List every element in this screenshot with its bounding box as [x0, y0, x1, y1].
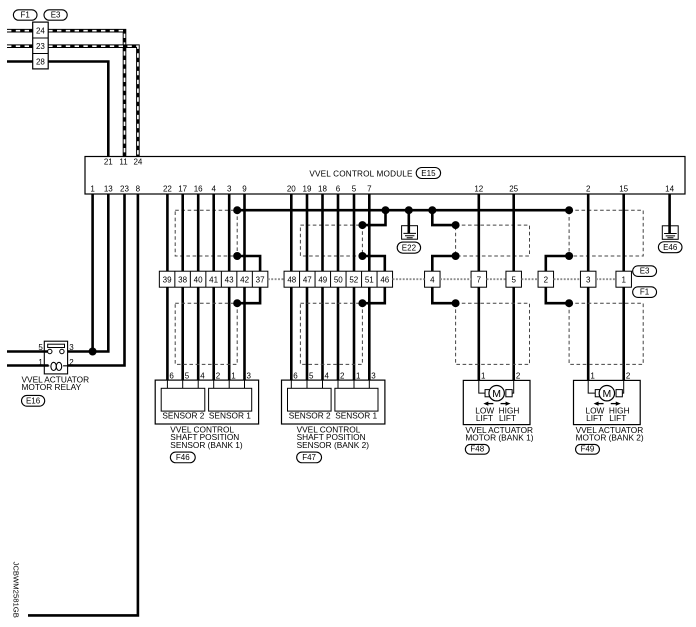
svg-text:F49: F49: [581, 445, 595, 454]
svg-text:4: 4: [211, 185, 216, 194]
svg-text:MOTOR (BANK 2): MOTOR (BANK 2): [576, 433, 644, 443]
motor connector boxes 4 7 5 2 3 1: [425, 271, 441, 287]
wire feed into relay terminal 5: [7, 350, 50, 353]
connector row bank2 sensor 48 47 49 50 52 51 46: [284, 271, 393, 287]
svg-text:LIFT: LIFT: [476, 413, 493, 423]
motor connector oval F48: [465, 444, 489, 454]
VVEL control shaft position sensor (bank 1) F46: [155, 380, 258, 424]
svg-text:LIFT: LIFT: [586, 413, 603, 423]
svg-text:2: 2: [626, 372, 631, 381]
svg-text:25: 25: [509, 185, 518, 194]
svg-text:E46: E46: [663, 243, 678, 252]
svg-text:40: 40: [194, 276, 203, 285]
svg-text:17: 17: [178, 185, 187, 194]
wire module pin 13 to relay terminal 3: [68, 194, 109, 352]
svg-text:M: M: [492, 388, 501, 400]
svg-text:2: 2: [216, 371, 221, 380]
svg-text:23: 23: [36, 42, 45, 51]
svg-text:50: 50: [334, 276, 343, 285]
svg-text:SENSOR 2: SENSOR 2: [289, 410, 331, 420]
wires connector row to bank1 sensor: [166, 287, 169, 380]
svg-text:37: 37: [256, 276, 265, 285]
relay contact terminals: [48, 349, 52, 353]
svg-text:2: 2: [544, 276, 549, 285]
shield box bank2 motor lower: [569, 303, 643, 364]
svg-text:3: 3: [247, 371, 252, 380]
svg-text:11: 11: [119, 157, 128, 166]
sensor 1 inner box SENSOR 2: [161, 388, 205, 411]
svg-text:E3: E3: [640, 267, 650, 276]
shield box bank2 motor upper: [569, 210, 643, 256]
svg-text:1: 1: [621, 276, 626, 285]
shield drain bank2 motor to connector 2: [546, 256, 569, 271]
VVEL actuator motor (bank 2) box: [574, 380, 641, 424]
svg-text:48: 48: [287, 276, 296, 285]
connector oval F1 (fuse block label): [13, 10, 37, 20]
svg-text:5: 5: [511, 276, 516, 285]
svg-text:21: 21: [104, 157, 113, 166]
svg-text:2: 2: [516, 372, 521, 381]
wires module pins 20 19 18 6 5 7 to connector row: [290, 194, 293, 271]
svg-text:1: 1: [38, 358, 43, 367]
svg-text:24: 24: [36, 27, 45, 36]
power line 28 (solid) to module pin 21: [7, 60, 33, 63]
svg-text:SENSOR 1: SENSOR 1: [209, 410, 251, 420]
svg-text:F1: F1: [640, 288, 650, 297]
svg-text:1: 1: [231, 371, 236, 380]
svg-text:51: 51: [365, 276, 374, 285]
svg-text:M: M: [602, 388, 611, 400]
power line 23 (striped) to module pin 24: [7, 44, 33, 48]
wire module pin 8 long run to bottom left: [28, 194, 138, 615]
svg-text:E15: E15: [421, 169, 436, 178]
svg-text:2: 2: [340, 371, 345, 380]
svg-text:3: 3: [69, 343, 74, 352]
junction dots shield corners lower: [233, 299, 241, 307]
relay contact bar: [48, 344, 65, 347]
svg-text:JCBWM2581GB: JCBWM2581GB: [11, 562, 20, 618]
connector oval E3 (fuse block label): [44, 10, 67, 20]
svg-text:39: 39: [163, 276, 172, 285]
svg-text:1: 1: [90, 185, 95, 194]
sensor connector oval F46: [170, 452, 195, 463]
wires connector row to bank2 sensor: [290, 287, 293, 380]
VVEL actuator motor (bank 1) box: [463, 380, 530, 424]
svg-text:22: 22: [163, 185, 172, 194]
motor 1 brush tabs: [485, 390, 491, 397]
shield box bank1 motor upper: [456, 225, 530, 256]
svg-text:4: 4: [325, 371, 330, 380]
svg-text:1: 1: [356, 371, 361, 380]
svg-text:6: 6: [169, 371, 174, 380]
svg-text:47: 47: [303, 276, 312, 285]
svg-text:43: 43: [225, 276, 234, 285]
svg-text:49: 49: [318, 276, 327, 285]
svg-text:24: 24: [133, 157, 142, 166]
motor 2 M symbol: [599, 386, 614, 401]
svg-text:6: 6: [293, 371, 298, 380]
svg-text:7: 7: [477, 276, 482, 285]
power line 24 (striped) to module pin 11: [7, 29, 33, 33]
dotted connector row links: [268, 278, 284, 280]
svg-text:4: 4: [430, 276, 435, 285]
svg-text:28: 28: [36, 58, 45, 67]
svg-text:5: 5: [38, 343, 43, 352]
svg-text:SENSOR 1: SENSOR 1: [335, 410, 377, 420]
motor 2 brush tabs: [595, 390, 601, 397]
svg-text:52: 52: [349, 276, 358, 285]
svg-text:F48: F48: [470, 445, 484, 454]
shield drain connector 46 to lower shield: [362, 287, 384, 303]
sensor 1 inner box SENSOR 1: [209, 388, 252, 411]
svg-text:3: 3: [227, 185, 232, 194]
svg-text:15: 15: [619, 185, 628, 194]
sensor 2 inner box SENSOR 1: [335, 388, 378, 411]
motor 1 direction arrows: [488, 403, 494, 405]
svg-text:5: 5: [185, 371, 190, 380]
svg-text:MOTOR (BANK 1): MOTOR (BANK 1): [465, 433, 533, 443]
shield box bank2 sensor lower: [300, 303, 362, 364]
svg-text:F1: F1: [21, 11, 31, 20]
svg-text:9: 9: [242, 185, 247, 194]
svg-text:5: 5: [352, 185, 357, 194]
connector oval F1 (right): [633, 287, 657, 298]
svg-text:46: 46: [380, 276, 389, 285]
wires module pins 22 17 16 4 3 9 to connector row: [166, 194, 169, 271]
module connector oval E15: [416, 168, 440, 179]
svg-text:E3: E3: [51, 11, 61, 20]
motor 2 internal wires: [588, 380, 595, 393]
svg-text:6: 6: [336, 185, 341, 194]
fuse block terminals 24/23/28: [33, 22, 49, 69]
shield drain connector 37 to lower shield: [237, 287, 260, 303]
svg-text:8: 8: [136, 185, 141, 194]
relay coil: [44, 365, 67, 367]
motor 1 M symbol: [489, 386, 504, 401]
wires module pins 12 25 to connectors 7 5: [477, 194, 480, 271]
shield drain bank2 sensor to bus: [362, 210, 385, 225]
junction dot at relay output: [89, 348, 97, 356]
sensor connector oval F47: [297, 452, 322, 463]
shield drain bank2 sensor to connector 46: [362, 256, 384, 271]
connector row bank1 sensor 39 38 40 41 43 42 37: [159, 271, 268, 287]
svg-text:2: 2: [586, 185, 591, 194]
svg-text:F46: F46: [176, 453, 190, 462]
svg-text:LIFT: LIFT: [609, 413, 626, 423]
shield box bank1 motor lower: [456, 303, 530, 364]
VVEL control module box E15: [85, 157, 685, 195]
shield drain bank1 sensor to connector 37: [237, 256, 260, 271]
svg-text:SENSOR (BANK 1): SENSOR (BANK 1): [170, 440, 243, 450]
svg-text:MOTOR RELAY: MOTOR RELAY: [22, 382, 82, 392]
shield drain bank1 motor to bus: [432, 210, 455, 225]
wire module pin 1 to relay terminal 3 junction: [91, 194, 94, 352]
svg-text:VVEL CONTROL MODULE: VVEL CONTROL MODULE: [309, 169, 413, 178]
sensor 1 internal pin wires: [166, 380, 168, 388]
ground oval E46: [658, 242, 682, 253]
shield box bank1 sensor upper: [175, 210, 237, 256]
svg-text:14: 14: [665, 185, 674, 194]
svg-text:SENSOR (BANK 2): SENSOR (BANK 2): [297, 440, 370, 450]
connector oval E3 (right): [633, 266, 657, 277]
shield drain connector 2 to lower shield: [546, 287, 569, 303]
svg-text:3: 3: [586, 276, 591, 285]
svg-text:1: 1: [481, 372, 486, 381]
svg-text:2: 2: [69, 358, 74, 367]
junction dots on ground bus: [233, 206, 241, 214]
svg-text:38: 38: [178, 276, 187, 285]
wire module pin 14 to ground E46: [668, 194, 671, 234]
VVEL actuator motor relay box E16: [44, 341, 67, 374]
svg-text:41: 41: [209, 276, 218, 285]
svg-text:E16: E16: [26, 397, 41, 406]
shield drain bank1 motor to connector 4: [432, 256, 455, 271]
ground oval E22: [397, 242, 420, 253]
ground symbol E22: [402, 226, 418, 240]
motor 1 internal wires: [479, 380, 485, 393]
motor connector oval F49: [576, 444, 600, 454]
wires module pins 2 15 to connectors 3 1: [587, 194, 590, 271]
svg-text:23: 23: [120, 185, 129, 194]
svg-text:18: 18: [318, 185, 327, 194]
svg-text:3: 3: [371, 371, 376, 380]
svg-text:E22: E22: [402, 243, 417, 252]
ground symbol E46: [662, 226, 678, 240]
shield box bank2 sensor upper: [300, 225, 362, 256]
ground bus wire: [237, 209, 569, 212]
svg-text:5: 5: [309, 371, 314, 380]
svg-text:1: 1: [590, 372, 595, 381]
svg-text:12: 12: [474, 185, 483, 194]
ground E22 drop wire: [407, 210, 410, 233]
sensor 2 inner box SENSOR 2: [288, 388, 332, 411]
wire feed into relay terminal 1: [7, 364, 49, 367]
svg-text:19: 19: [303, 185, 312, 194]
svg-text:13: 13: [104, 185, 113, 194]
svg-text:F47: F47: [302, 453, 316, 462]
motor 2 direction arrows: [598, 403, 604, 405]
VVEL control shaft position sensor (bank 2) F47: [282, 380, 385, 424]
svg-text:SENSOR 2: SENSOR 2: [162, 410, 204, 420]
junction dots shield corners upper: [358, 221, 366, 229]
svg-text:16: 16: [194, 185, 203, 194]
shield drain connector 4 to lower shield: [432, 287, 455, 303]
svg-text:4: 4: [200, 371, 205, 380]
svg-text:20: 20: [287, 185, 296, 194]
sensor 2 internal pin wires: [290, 380, 292, 388]
svg-text:7: 7: [367, 185, 372, 194]
shield box bank1 sensor lower: [175, 303, 237, 364]
svg-text:42: 42: [240, 276, 249, 285]
wire module pin 23 to relay terminal 2: [68, 194, 125, 366]
relay connector oval E16: [22, 395, 45, 406]
svg-text:LIFT: LIFT: [499, 413, 516, 423]
